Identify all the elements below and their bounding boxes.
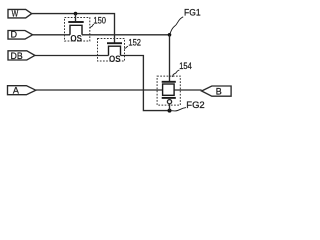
svg-text:DB: DB	[11, 51, 23, 61]
wire drain of 152 to node FG2 (down and right)	[121, 56, 170, 111]
wire D to source of 150	[33, 34, 70, 36]
svg-text:OS: OS	[109, 54, 121, 64]
terminal DB	[8, 51, 35, 61]
transistor 150 (OS)	[65, 14, 90, 41]
label FG2 with leader	[170, 100, 205, 111]
svg-text:FG2: FG2	[186, 100, 205, 110]
svg-text:152: 152	[128, 37, 141, 48]
wire node FG1 down to top gate of 154	[169, 35, 171, 81]
terminal B	[202, 86, 232, 96]
wire A to source of 154	[36, 89, 163, 91]
label 154 with leader	[172, 60, 191, 77]
node FG1 junction dot	[168, 33, 172, 37]
svg-text:154: 154	[179, 60, 192, 71]
svg-text:D: D	[11, 30, 18, 40]
wire W line (word line, turns down to gate of 152)	[32, 14, 115, 43]
node FG2 junction dot	[168, 109, 172, 113]
svg-text:OS: OS	[70, 33, 82, 43]
svg-text:150: 150	[93, 15, 106, 26]
terminal D	[8, 30, 33, 40]
label 150 with leader	[90, 15, 106, 29]
svg-text:FG1: FG1	[184, 8, 201, 18]
terminal W	[8, 8, 32, 18]
svg-text:B: B	[216, 86, 222, 96]
terminal A	[8, 86, 36, 96]
transistor 152 (OS)	[98, 39, 125, 62]
label 152 with leader	[125, 37, 141, 49]
transistor 154 (with back gate)	[157, 76, 180, 111]
svg-text:W: W	[12, 8, 19, 18]
svg-text:A: A	[13, 86, 19, 96]
wire drain of 150 to node FG1	[82, 34, 170, 36]
junction dot (W line to gate of 150)	[74, 12, 78, 16]
label FG1 with leader	[170, 8, 201, 34]
wire DB to source of 152	[35, 55, 109, 57]
wire drain of 154 to terminal B	[174, 89, 201, 91]
